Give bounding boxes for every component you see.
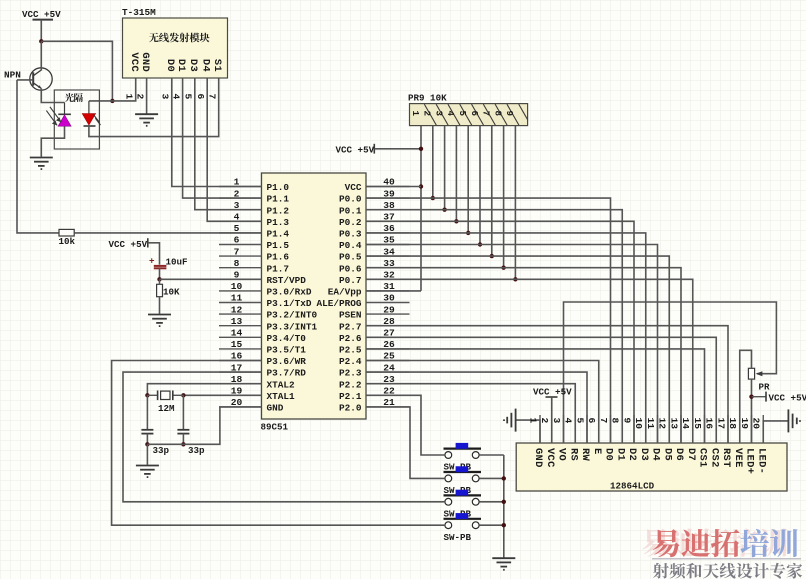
junction — [490, 254, 494, 258]
wire P0.4 to LCD D4 — [366, 245, 658, 444]
junction — [181, 442, 185, 446]
wire — [41, 41, 112, 101]
wire U3 D to P1.2 — [195, 78, 262, 210]
PR9 element 6 — [469, 104, 496, 125]
U1 pin 15 P3.5/T1 — [219, 339, 306, 355]
svg-text:XTAL1: XTAL1 — [267, 391, 296, 402]
junction — [145, 442, 149, 446]
switch SW-PB 3 — [444, 490, 482, 520]
switch SW-PB 2 — [444, 466, 482, 496]
U1 pin 26 P2.5 — [339, 339, 410, 355]
LCD module 12864LCD — [516, 443, 787, 491]
PR9 element 8 — [492, 104, 519, 125]
svg-text:PR9 10K: PR9 10K — [408, 93, 447, 104]
svg-text:P1.4: P1.4 — [267, 229, 290, 240]
svg-text:+: + — [149, 256, 155, 267]
wire — [182, 434, 184, 445]
wire — [40, 20, 42, 42]
svg-text:VCC +5V: VCC +5V — [533, 387, 572, 398]
svg-text:XTAL2: XTAL2 — [267, 379, 296, 390]
LCD pin 20 LED- — [751, 415, 768, 474]
U3 pin 4 D1 — [170, 59, 186, 100]
switch SW-PB 4 — [444, 513, 482, 543]
wire — [159, 268, 161, 279]
svg-text:14: 14 — [680, 418, 691, 430]
junction — [478, 242, 482, 246]
potentiometer PR — [748, 368, 770, 392]
wire VO to wiper — [564, 302, 777, 443]
svg-text:P2.4: P2.4 — [339, 356, 362, 367]
wire — [112, 361, 445, 526]
svg-text:P2.1: P2.1 — [339, 391, 362, 402]
LCD pin 11 D4 — [645, 415, 662, 461]
U3 pin 5 D3 — [183, 59, 199, 100]
LCD pin 14 D7 — [680, 415, 697, 461]
svg-text:D0: D0 — [164, 59, 176, 72]
svg-text:RST/VPD: RST/VPD — [267, 275, 307, 286]
svg-text:10K: 10K — [163, 287, 180, 298]
LCD pin 4 RS — [563, 415, 580, 461]
wire P2.6 to LCD — [366, 337, 716, 443]
junction — [513, 277, 517, 281]
U1 pin 24 P2.3 — [339, 362, 410, 378]
svg-text:6: 6 — [234, 235, 240, 246]
capacitor 33p — [177, 430, 205, 456]
svg-text:15: 15 — [231, 339, 243, 350]
label 无线发射模块 — [149, 33, 210, 43]
wire PR9 pin8 — [503, 126, 505, 268]
wire emitter — [41, 88, 64, 102]
svg-text:2: 2 — [134, 94, 145, 100]
svg-text:LED+: LED+ — [744, 448, 756, 474]
LCD pin 8 D1 — [610, 415, 627, 461]
U1 pin 16 P3.6/WR — [219, 351, 306, 367]
svg-text:17: 17 — [715, 418, 726, 430]
LCD pin 16 CS2 — [704, 415, 721, 468]
wire P2.4 to LCD — [366, 361, 599, 444]
junction — [431, 196, 435, 200]
svg-text:3: 3 — [551, 418, 562, 424]
LCD pin 2 VCC — [539, 415, 556, 468]
svg-text:9: 9 — [234, 270, 240, 281]
svg-text:10: 10 — [231, 281, 243, 292]
svg-text:P1.5: P1.5 — [267, 240, 290, 251]
svg-text:P3.5/T1: P3.5/T1 — [267, 345, 307, 356]
U1 pin 23 P2.2 — [339, 374, 410, 390]
U1 pin 25 P2.4 — [339, 351, 410, 367]
U1 pin 21 P2.0 — [339, 397, 410, 413]
svg-text:RW: RW — [579, 448, 591, 462]
svg-text:PR: PR — [759, 382, 771, 393]
switch SW-PB 1 — [444, 443, 482, 473]
svg-text:4: 4 — [234, 212, 240, 223]
U1 pin 37 P0.2 — [339, 212, 410, 228]
svg-text:2: 2 — [234, 188, 240, 199]
wire — [479, 454, 504, 456]
svg-text:2: 2 — [422, 111, 433, 117]
wire P0.0 to LCD D0 — [366, 198, 611, 443]
junction — [145, 393, 149, 397]
svg-text:P0.2: P0.2 — [339, 217, 362, 228]
svg-text:4: 4 — [445, 111, 456, 117]
svg-text:P3.2/INT0: P3.2/INT0 — [267, 310, 318, 321]
svg-text:89C51: 89C51 — [261, 422, 289, 433]
U3 pin 3 D0 — [160, 59, 176, 100]
svg-text:D4: D4 — [650, 448, 662, 461]
U3 pin 6 D4 — [195, 59, 211, 100]
svg-text:D7: D7 — [685, 448, 697, 461]
U1 pin 20 GND — [219, 397, 284, 413]
junction — [501, 266, 505, 270]
wire — [366, 395, 444, 455]
svg-text:2: 2 — [539, 418, 550, 424]
ground (switches) — [492, 558, 515, 570]
wire P2.7 to LCD — [366, 326, 728, 443]
svg-text:P1.0: P1.0 — [267, 182, 290, 193]
svg-text:P2.2: P2.2 — [339, 379, 362, 390]
wire XTAL1 — [183, 394, 261, 396]
wire LED2 to S1 — [89, 78, 219, 137]
LCD pin 17 RST — [715, 415, 732, 468]
svg-text:VCC +5V: VCC +5V — [336, 145, 375, 156]
junction — [419, 184, 423, 188]
svg-text:VCC: VCC — [345, 182, 362, 193]
U1 pin 40 VCC — [345, 177, 410, 193]
ground (crystal) — [136, 466, 159, 478]
U1 pin 33 P0.6 — [339, 258, 410, 274]
U1 pin 13 P3.3/INT1 — [219, 316, 318, 332]
wire — [146, 434, 148, 445]
U1 pin 3 P1.2 — [219, 200, 289, 216]
svg-text:P0.4: P0.4 — [339, 240, 362, 251]
svg-text:D5: D5 — [661, 448, 673, 461]
svg-text:3: 3 — [234, 200, 240, 211]
capacitor C1 10uF — [149, 256, 188, 269]
junction — [419, 147, 423, 151]
power VCC +5V (RST circuit) — [109, 238, 148, 250]
U1 pin 34 P0.5 — [339, 246, 410, 262]
LCD pin 12 D5 — [657, 415, 674, 461]
svg-text:10uF: 10uF — [166, 257, 188, 268]
LED D1 (magenta, photodetector) — [46, 103, 71, 127]
wire U3 D to P1.0 — [172, 78, 262, 187]
svg-text:19: 19 — [231, 386, 243, 397]
svg-text:P0.1: P0.1 — [339, 205, 362, 216]
svg-text:RS: RS — [567, 448, 579, 461]
U3 pin 1 VCC — [124, 52, 140, 99]
svg-text:P2.7: P2.7 — [339, 321, 362, 332]
U1 pin 10 P3.0/RxD — [219, 281, 312, 297]
svg-text:S1: S1 — [211, 59, 223, 72]
svg-text:12864LCD: 12864LCD — [610, 481, 655, 492]
label 光隔 — [65, 93, 83, 102]
svg-text:9: 9 — [504, 111, 515, 117]
wire collector — [40, 41, 42, 70]
LCD pin 19 LED+ — [739, 415, 756, 474]
U1 pin 22 P2.1 — [339, 386, 410, 402]
svg-text:P1.3: P1.3 — [267, 217, 290, 228]
svg-text:SW-PB: SW-PB — [444, 532, 472, 543]
PR9 element 3 — [433, 104, 460, 125]
svg-text:P0.3: P0.3 — [339, 229, 362, 240]
svg-text:7: 7 — [207, 94, 218, 100]
U1 pin 8 P1.7 — [219, 258, 289, 274]
svg-text:7: 7 — [598, 418, 609, 424]
svg-text:P3.0/RxD: P3.0/RxD — [267, 287, 312, 298]
svg-text:VO: VO — [556, 448, 568, 461]
U1 pin 4 P1.3 — [219, 212, 289, 228]
PR9 element 1 — [410, 104, 437, 125]
U3 pin 2 GND — [134, 52, 150, 99]
svg-text:T-315M: T-315M — [122, 7, 156, 18]
U1 pin 36 P0.3 — [339, 223, 410, 239]
wire — [182, 395, 184, 430]
U1 pin 39 P0.0 — [339, 188, 410, 204]
svg-text:VCC: VCC — [544, 448, 556, 468]
wire P0.3 to LCD D3 — [366, 233, 646, 443]
junction — [454, 219, 458, 223]
wire PR9 pin3 — [444, 126, 446, 210]
svg-text:RST: RST — [720, 448, 732, 468]
LCD pin 7 D0 — [598, 415, 615, 461]
svg-text:3: 3 — [433, 111, 444, 117]
power VCC +5V (pack) — [336, 144, 375, 156]
wire P0.5 to LCD D5 — [366, 256, 669, 443]
U1 pin 32 P0.7 — [339, 270, 410, 286]
watermark logo — [642, 528, 787, 556]
svg-text:NPN: NPN — [4, 70, 21, 81]
svg-text:D4: D4 — [199, 59, 211, 72]
svg-text:5: 5 — [574, 418, 585, 424]
svg-text:5: 5 — [234, 223, 240, 234]
svg-text:P0.5: P0.5 — [339, 252, 362, 263]
svg-text:7: 7 — [234, 246, 240, 257]
wire — [366, 407, 444, 479]
svg-text:20: 20 — [231, 397, 243, 408]
wire to P1.4 — [74, 232, 261, 234]
wire U3 D to P1.3 — [207, 78, 261, 221]
ground (LCD right) — [788, 409, 800, 432]
svg-text:P1.7: P1.7 — [267, 263, 290, 274]
wire P0.7 to LCD D7 — [366, 279, 693, 443]
wire to RST — [160, 278, 262, 280]
svg-text:P3.7/RD: P3.7/RD — [267, 368, 307, 379]
power VCC +5V (LCD) — [533, 387, 572, 398]
svg-text:P0.0: P0.0 — [339, 194, 362, 205]
wire P0.2 to LCD D2 — [366, 221, 634, 443]
svg-text:D3: D3 — [638, 448, 650, 461]
wire P0.6 to LCD D6 — [366, 268, 681, 443]
U1 pin 7 P1.6 — [219, 246, 289, 262]
svg-text:CS2: CS2 — [708, 448, 720, 468]
U1 pin 30 ALE/PROG — [316, 293, 409, 309]
wire U3 D to P1.1 — [183, 78, 262, 198]
svg-text:11: 11 — [645, 418, 656, 430]
svg-text:P1.1: P1.1 — [267, 194, 290, 205]
wire — [159, 279, 161, 284]
svg-text:LED-: LED- — [755, 448, 767, 474]
svg-text:10k: 10k — [59, 236, 76, 247]
ground (R2) — [148, 315, 171, 327]
junction — [502, 500, 506, 504]
wire — [148, 243, 160, 265]
LED D2 (red, emitter) — [82, 101, 100, 126]
svg-text:D6: D6 — [673, 448, 685, 461]
wire GND pin — [147, 407, 261, 444]
svg-text:D1: D1 — [614, 448, 626, 461]
svg-text:18: 18 — [231, 374, 243, 385]
wire switch common — [503, 455, 505, 558]
transistor Q1 NPN — [4, 68, 52, 90]
wire LED- — [763, 421, 788, 443]
svg-text:14: 14 — [231, 328, 243, 339]
wire PR9 pin5 — [467, 126, 469, 233]
wire — [479, 477, 504, 479]
wire — [146, 395, 148, 430]
svg-text:33p: 33p — [153, 445, 170, 456]
wire VCC to LCD — [551, 397, 553, 443]
svg-text:D2: D2 — [626, 448, 638, 461]
svg-text:GND: GND — [139, 52, 151, 72]
PR9 element 9 — [504, 104, 531, 125]
svg-text:11: 11 — [231, 293, 243, 304]
svg-text:CS1: CS1 — [697, 448, 709, 468]
svg-text:P2.3: P2.3 — [339, 368, 362, 379]
svg-text:ALE/PROG: ALE/PROG — [316, 298, 361, 309]
junction — [442, 208, 446, 212]
wire base — [17, 79, 33, 81]
wire — [146, 444, 148, 465]
wire P2.2 to LCD — [366, 384, 575, 443]
svg-text:P2.6: P2.6 — [339, 333, 362, 344]
svg-text:D0: D0 — [603, 448, 615, 461]
svg-text:18: 18 — [727, 418, 738, 430]
svg-text:10: 10 — [633, 418, 644, 430]
wire XTAL2 — [147, 384, 261, 396]
svg-text:E: E — [591, 448, 603, 455]
wire — [146, 78, 148, 114]
svg-text:P1.6: P1.6 — [267, 252, 290, 263]
svg-text:P0.6: P0.6 — [339, 263, 362, 274]
svg-text:12: 12 — [657, 418, 668, 430]
LCD pin 6 E — [586, 415, 603, 455]
junction — [181, 393, 185, 397]
PR9 element 5 — [457, 104, 484, 125]
svg-text:P2.5: P2.5 — [339, 345, 362, 356]
LCD pin 10 D3 — [633, 415, 650, 461]
PR9 element 7 — [481, 104, 508, 125]
U1 pin 27 P2.6 — [339, 328, 410, 344]
wire PR9 pin9 — [514, 126, 516, 280]
ground (optocoupler) — [30, 158, 53, 170]
svg-text:P1.2: P1.2 — [267, 205, 290, 216]
LCD pin 3 VO — [551, 415, 568, 461]
junction node VCC — [39, 39, 43, 43]
svg-text:12: 12 — [231, 304, 243, 315]
svg-text:PSEN: PSEN — [339, 310, 362, 321]
wire PR9 pin1 — [420, 126, 422, 291]
svg-text:P2.0: P2.0 — [339, 403, 362, 414]
PR9 element 4 — [445, 104, 472, 125]
crystal Y1 12M — [147, 391, 183, 415]
wire to optocoupler LED2 — [89, 100, 112, 102]
svg-text:8: 8 — [234, 258, 240, 269]
svg-text:1: 1 — [124, 94, 135, 100]
svg-text:D1: D1 — [175, 59, 187, 72]
svg-text:30: 30 — [383, 293, 395, 304]
svg-text:5: 5 — [457, 111, 468, 117]
PR9 element 2 — [422, 104, 449, 125]
ground (LCD left) — [504, 409, 516, 432]
junction — [749, 395, 753, 399]
U1 pin 31 EA/Vpp — [328, 281, 410, 297]
LCD pin 1 GND — [527, 415, 544, 468]
U1 pin 19 XTAL1 — [219, 386, 295, 402]
U1 pin 38 P0.1 — [339, 200, 410, 216]
U1 pin 18 XTAL2 — [219, 374, 295, 390]
svg-text:P3.3/INT1: P3.3/INT1 — [267, 321, 318, 332]
wire to U2 pin1 — [112, 78, 135, 101]
svg-text:8: 8 — [492, 111, 503, 117]
svg-text:6: 6 — [469, 111, 480, 117]
wire — [374, 148, 421, 150]
junction — [110, 99, 114, 103]
resistor R1 10k — [59, 229, 76, 247]
U1 pin 11 P3.1/TxD — [219, 293, 312, 309]
svg-text:20: 20 — [751, 418, 762, 430]
svg-text:6: 6 — [195, 94, 206, 100]
LCD pin 15 CS1 — [692, 415, 709, 468]
svg-text:16: 16 — [704, 418, 715, 430]
junction — [466, 231, 470, 235]
LCD pin 13 D6 — [668, 415, 685, 461]
U1 pin 5 P1.4 — [219, 223, 289, 239]
svg-text:13: 13 — [231, 316, 243, 327]
resistor R2 10K — [157, 284, 180, 297]
svg-text:13: 13 — [668, 418, 679, 430]
U1 pin 12 P3.2/INT0 — [219, 304, 318, 320]
power VCC +5V (top left) — [22, 9, 61, 20]
wire P0.1 to LCD D1 — [366, 210, 622, 443]
wire LCD GND — [516, 420, 540, 443]
wire — [17, 80, 59, 233]
wire EA/Vpp — [366, 290, 421, 292]
module U3 T-315M box — [122, 7, 228, 78]
U1 pin 1 P1.0 — [219, 177, 289, 193]
power VCC +5V (pot) — [752, 392, 806, 404]
wire — [159, 297, 161, 314]
optocoupler U2 光隔 — [54, 90, 99, 149]
LCD pin 9 D2 — [621, 415, 638, 461]
wire — [123, 372, 444, 502]
wire VCC pin40 — [366, 186, 421, 188]
svg-text:3: 3 — [160, 94, 171, 100]
svg-text:EA/Vpp: EA/Vpp — [328, 287, 362, 298]
junction — [502, 476, 506, 480]
capacitor 33p — [141, 430, 169, 456]
svg-text:GND: GND — [267, 403, 284, 414]
wire PR9 pin7 — [491, 126, 493, 257]
wire P2.5 to LCD — [366, 349, 705, 443]
svg-text:P3.6/WR: P3.6/WR — [267, 356, 307, 367]
U1 pin 2 P1.1 — [219, 188, 289, 204]
svg-text:33p: 33p — [188, 445, 205, 456]
U1 pin 17 P3.7/RD — [219, 362, 306, 378]
wire PR9 pin6 — [479, 126, 481, 245]
wire LED1 to ground — [41, 126, 64, 157]
svg-text:VEE: VEE — [732, 448, 744, 468]
svg-text:VCC +5V: VCC +5V — [22, 9, 61, 20]
